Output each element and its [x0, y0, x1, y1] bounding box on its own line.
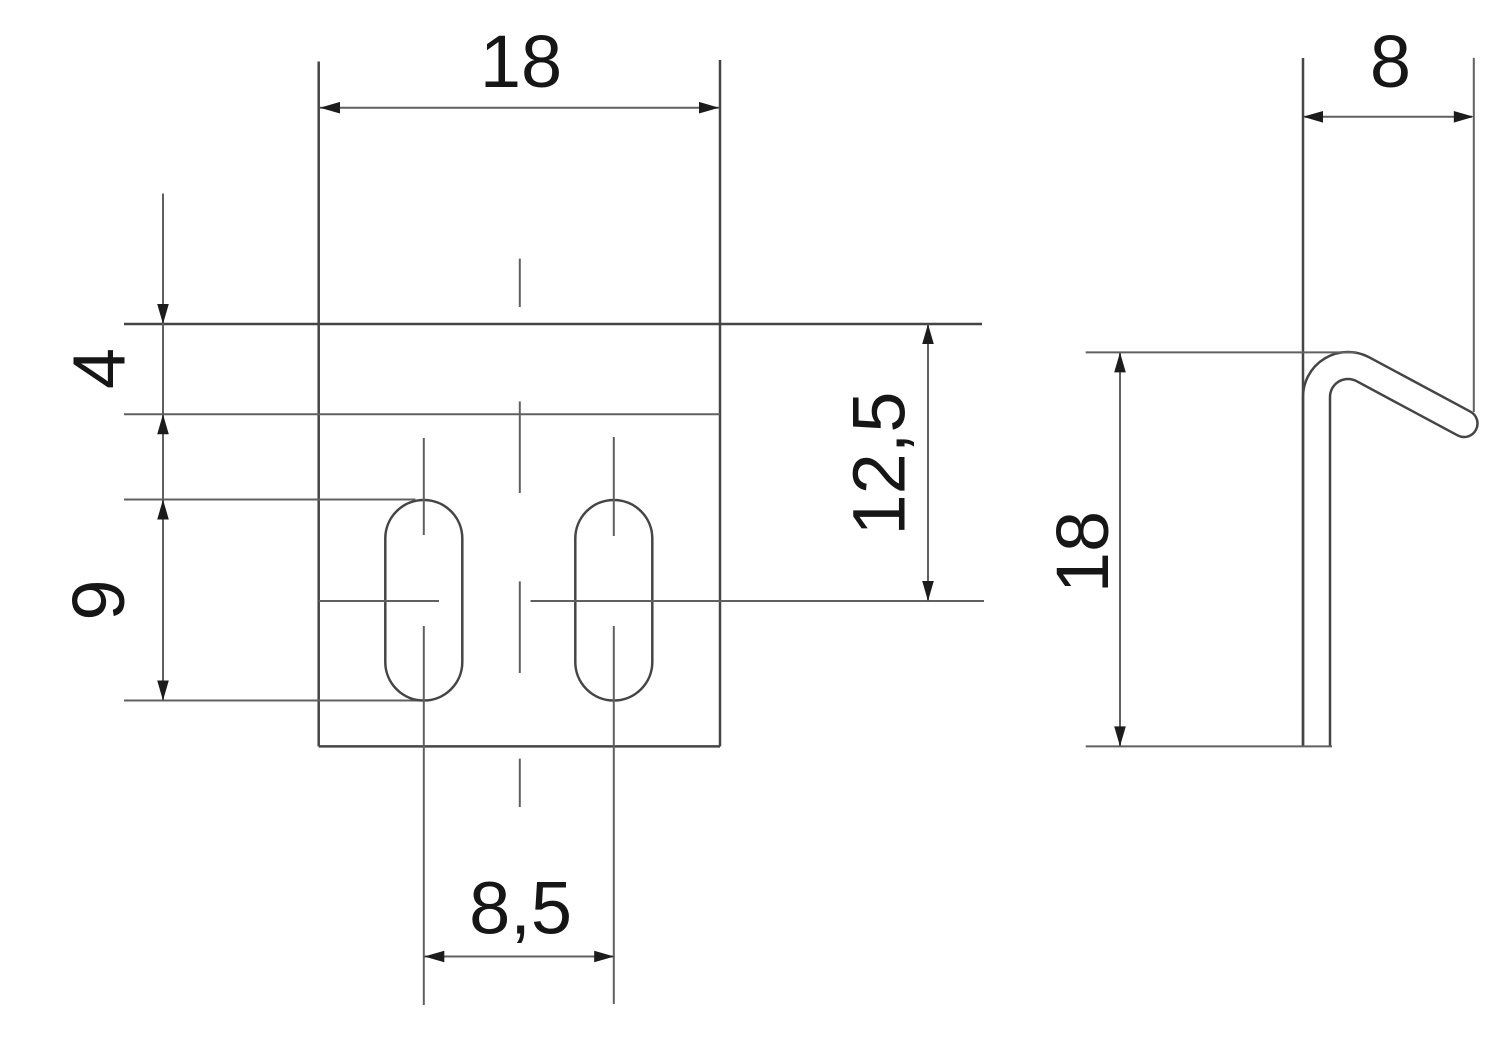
side view hook outline [1303, 352, 1477, 746]
arrow left of dimension 8 [1303, 111, 1323, 123]
slot 1 outline [385, 500, 462, 701]
dimension 18 (front width) line [320, 107, 719, 109]
horizontal slot center line right segment [531, 600, 985, 602]
side view bottom reference line [1086, 745, 1332, 747]
front view bend tangent edge (top flange line) [124, 323, 982, 326]
slot 1 vertical center line [423, 438, 425, 535]
dimension 8 (side) line [1305, 116, 1473, 118]
front view left edge / extension line [317, 62, 320, 747]
middle center line dashes [519, 259, 521, 307]
arrow right of dimension 8,5 [594, 951, 614, 963]
extension line slot bottom [124, 700, 422, 702]
svg-text:18: 18 [480, 20, 562, 103]
extension line slot top [124, 499, 416, 501]
arrow up of side dimension 18 [1114, 352, 1126, 372]
arrow right of dimension 18 [699, 102, 719, 114]
front view right edge / extension line [719, 60, 722, 746]
arrow up to slot top line (dim 9 top) [157, 500, 169, 520]
svg-text:9: 9 [57, 579, 140, 620]
horizontal slot center line left segment [319, 600, 439, 602]
front view bottom edge [319, 745, 720, 748]
front view bend bottom line [124, 413, 720, 415]
svg-text:12,5: 12,5 [838, 391, 921, 535]
side view left extension line above bend [1302, 58, 1305, 746]
arrow left of dimension 8,5 [424, 951, 444, 963]
dimension 18 (side height) line [1119, 352, 1121, 746]
dimension 8,5 line [424, 956, 614, 958]
arrow down of dimension 12,5 [922, 581, 934, 601]
arrow left of dimension 18 [320, 102, 340, 114]
arrow down of side dimension 18 [1114, 726, 1126, 746]
arrow up of dimension 12,5 [922, 324, 934, 344]
slot 2 vertical center line [613, 437, 615, 536]
slot 2 outline [575, 500, 652, 701]
left dimension stack line [162, 194, 164, 701]
dimension 12,5 line [927, 324, 929, 601]
arrow down to bend tangent line (dim 4 top) [157, 304, 169, 324]
svg-text:4: 4 [57, 348, 140, 389]
side view right extension line [1473, 58, 1475, 412]
svg-text:18: 18 [1041, 511, 1124, 593]
svg-text:8: 8 [1370, 20, 1411, 103]
arrow right of dimension 8 [1454, 111, 1474, 123]
svg-text:8,5: 8,5 [469, 867, 572, 950]
side view top reference line [1086, 351, 1357, 353]
arrow up to bend bottom line (dim 4 bottom) [157, 414, 169, 434]
arrow down to slot bottom line (dim 9 bottom) [157, 681, 169, 701]
